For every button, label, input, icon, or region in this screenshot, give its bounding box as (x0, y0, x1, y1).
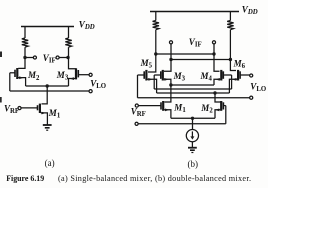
resistor RL2 (a) (65, 38, 71, 47)
wire cross line upper (b) (156, 53, 214, 55)
wire left resistor top (a) (24, 27, 26, 39)
svg-text:M1: M1 (48, 108, 61, 120)
svg-text:VRF: VRF (131, 107, 146, 119)
wire RF return line (b) (138, 123, 226, 125)
transistor M3 (b) (154, 70, 171, 85)
terminal VRF (a) (18, 107, 21, 110)
node output left (b) (154, 52, 157, 55)
ground (a) (43, 125, 52, 130)
svg-text:(a) Single-balanced mixer, (b): (a) Single-balanced mixer, (b) double-ba… (58, 174, 251, 183)
node output right (b) (229, 58, 232, 61)
svg-text:M3: M3 (56, 70, 69, 82)
transistor M3 (a) (69, 68, 90, 86)
svg-text:VLO: VLO (250, 81, 266, 93)
resistor RL2 (b) (227, 21, 233, 30)
scan artifact left edge 2 (0, 97, 2, 103)
resistor RL1 (a) (22, 38, 28, 47)
ground (b) (188, 148, 197, 153)
wire resistor to VIF node right (a) (68, 47, 70, 57)
wire tail to current source (b) (192, 118, 194, 129)
svg-text:VIF: VIF (43, 53, 56, 65)
terminal VRF bottom (b) (135, 122, 138, 125)
node on left IF stub (b) (169, 58, 172, 61)
svg-text:M6: M6 (233, 58, 246, 70)
terminal VIF left (b) (169, 41, 172, 44)
wire VIF right node to M3 drain (a) (69, 58, 77, 69)
wire current source to ground (b) (191, 142, 193, 148)
wire common source line (a) (26, 85, 69, 87)
terminal VLO top (b) (250, 74, 253, 77)
wire VIF right stub (a) (59, 57, 68, 59)
wire right resistor bottom (b) (229, 30, 231, 60)
transistor M2 (b) (215, 101, 226, 118)
resistor RL1 (b) (153, 21, 159, 30)
svg-text:VIF: VIF (189, 37, 202, 49)
terminal VLO bottom (a) (89, 90, 92, 93)
node IF left (a) (23, 56, 26, 59)
svg-text:M3: M3 (173, 71, 186, 83)
current source I1 (b) (186, 130, 198, 142)
wire left resistor bottom (b) (155, 30, 157, 54)
wire cross line lower (b) (171, 59, 230, 61)
wire LO line to terminal (b) (138, 97, 250, 99)
wire T1 to M1 drain (b) (165, 85, 171, 102)
node on right IF stub (b) (212, 52, 215, 55)
transistor M5 outer-left (b) (138, 70, 157, 93)
svg-text:VDD: VDD (79, 19, 95, 31)
scan artifact left edge 1 (0, 52, 2, 58)
VDD rail (b) (150, 11, 239, 13)
node T1 (b) (169, 83, 172, 86)
wire inner gates line (b) (154, 88, 231, 90)
svg-text:(a): (a) (45, 158, 55, 168)
wire left resistor top (b) (155, 12, 157, 21)
wire M3 gate riser (b) (153, 75, 155, 89)
node tail (b) (191, 117, 194, 120)
wire M2 gate riser (b) (225, 106, 227, 124)
wire tail line (b) (171, 117, 215, 119)
node IF right (a) (66, 56, 69, 59)
wire M2 gate riser (a) (9, 73, 11, 91)
wire VIF left stub (a) (27, 57, 34, 59)
wire VIF right stub down to M4 drain (b) (214, 44, 220, 71)
transistor M6 outer-right (b) (229, 70, 249, 93)
wire T2 sources line (b) (157, 92, 230, 94)
wire M6 gate riser to LO line (b) (137, 75, 139, 98)
wire left resistor node to M6 drain (b) (148, 54, 156, 72)
wire M4 gate riser (b) (231, 75, 233, 89)
wire right resistor top (b) (229, 12, 231, 21)
wire VIF left stub down to M3 drain (b) (164, 44, 171, 71)
terminal VIF left (a) (33, 56, 36, 59)
svg-text:M1: M1 (173, 103, 186, 115)
wire VIF left node to M2 drain (a) (18, 58, 25, 69)
wire right resistor node to M5 drain (b) (230, 60, 236, 71)
wire T1 sources line (b) (171, 84, 214, 86)
svg-text:Figure 6.19: Figure 6.19 (6, 174, 44, 183)
transistor M4 (b) (214, 70, 232, 85)
VDD rail (a) (21, 26, 74, 28)
wire LO return line (a) (10, 90, 89, 92)
svg-text:M2: M2 (27, 70, 40, 82)
node tail (a) (46, 84, 49, 87)
wire tail node to M1 drain (a) (42, 86, 48, 104)
terminal VLO bottom (b) (250, 96, 253, 99)
node T2 M2 drain (b) (213, 91, 216, 94)
terminal VRF top (b) (135, 104, 138, 107)
wire right resistor top (a) (68, 27, 70, 39)
transistor M2 (a) (10, 68, 26, 86)
wire resistor to VIF node left (a) (24, 47, 26, 57)
terminal VLO top (a) (89, 73, 92, 76)
svg-text:VLO: VLO (90, 78, 106, 90)
svg-text:VRF: VRF (4, 103, 19, 115)
terminal VIF right (a) (56, 56, 59, 59)
svg-text:M2: M2 (200, 103, 213, 115)
svg-text:M5: M5 (140, 58, 153, 70)
transistor M1 (b) (139, 101, 171, 118)
svg-text:VDD: VDD (242, 5, 258, 17)
svg-text:M4: M4 (200, 71, 213, 83)
wire M2 drain riser (b) (215, 93, 222, 102)
terminal VIF right (b) (212, 41, 215, 44)
svg-text:(b): (b) (188, 159, 199, 169)
transistor M1 (a) (21, 104, 47, 125)
